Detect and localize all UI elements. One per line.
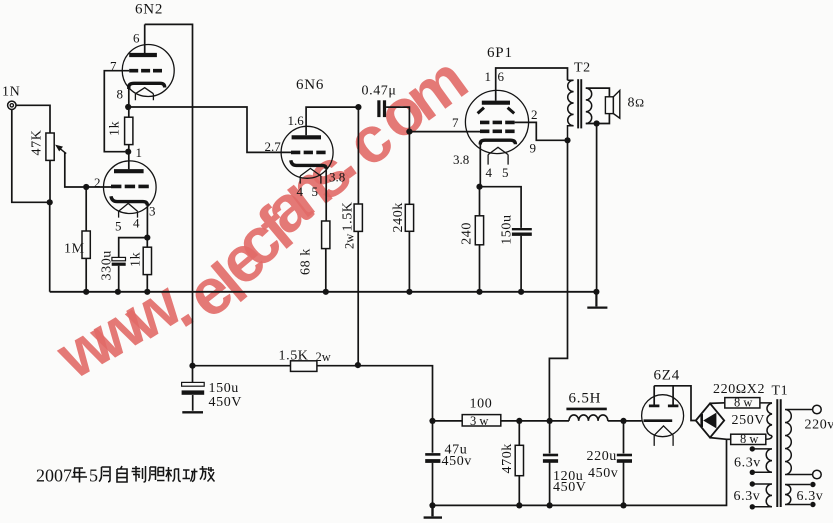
6N2 upper cathode: [129, 83, 165, 89]
ground symbol bottom left: [424, 505, 442, 517]
svg-text:6.3v: 6.3v: [734, 489, 761, 504]
6N2 upper grid (dashed): [129, 69, 162, 73]
svg-text:3.8: 3.8: [329, 169, 345, 184]
tube 6N2 lower triode envelope: [104, 161, 157, 214]
node 1k ground: [144, 289, 150, 295]
svg-text:1.6: 1.6: [288, 113, 305, 128]
B+ rail top: [433, 420, 642, 422]
node 470k top: [516, 418, 522, 424]
hanzi 功: [183, 469, 198, 482]
node 470k bottom: [516, 502, 522, 508]
resistor 100 3w body: [462, 415, 501, 426]
svg-text:6.3v: 6.3v: [797, 489, 824, 504]
transformer T2 core: [577, 79, 582, 128]
svg-text:6N2: 6N2: [135, 2, 163, 18]
svg-text:1: 1: [136, 145, 143, 160]
resistor 1.5K 2w plate load leads: [357, 107, 359, 365]
node 220u bottom: [620, 502, 626, 508]
capacitor 120u 450V plates: [543, 455, 558, 461]
node 240 ground: [476, 289, 482, 295]
resistor 1.5K 2w plate load body: [354, 204, 362, 231]
svg-text:8Ω: 8Ω: [628, 96, 645, 111]
6N2 lower grid (dashed): [111, 185, 149, 189]
input jack 1N: [8, 101, 16, 109]
resistor 470k leads: [518, 421, 520, 506]
tube 6P1 envelope: [465, 90, 528, 153]
tube 6Z4 envelope: [642, 395, 684, 437]
svg-text:68 k: 68 k: [299, 248, 314, 275]
capacitor 47u 450v plates: [425, 454, 440, 461]
6N6 plate: [292, 135, 321, 139]
6N2 lower heater: [119, 203, 138, 217]
svg-text:150u: 150u: [209, 381, 239, 396]
6N2 upper plate: [129, 53, 157, 57]
6Z4 plates: [649, 404, 679, 407]
inductor 6.5H choke winding: [569, 415, 608, 421]
wire grid node to tube grid: [86, 186, 112, 188]
hanzi 自: [117, 466, 127, 482]
6P1 beam plates: [478, 108, 515, 114]
6Z4 heater: [654, 426, 673, 446]
6N6 cathode: [291, 160, 326, 169]
wire wiper to grid node: [65, 153, 84, 188]
6N2 upper plate lead: [144, 24, 146, 53]
ground symbol at bus end: [587, 292, 607, 308]
6P1 heater: [488, 147, 508, 164]
svg-text:1.5K: 1.5K: [341, 201, 356, 231]
svg-text:4: 4: [486, 165, 493, 180]
capacitor 330u leads: [119, 238, 148, 292]
hanzi 机: [166, 467, 181, 482]
tube 6N6 envelope: [281, 126, 333, 178]
node choke out / 220u top: [620, 418, 626, 424]
node T2 primary bottom / screen / B+: [564, 137, 570, 143]
svg-text:47K: 47K: [30, 130, 45, 156]
svg-text:5: 5: [502, 165, 509, 180]
svg-text:220u: 220u: [587, 449, 617, 464]
6N2 lower plate: [114, 169, 144, 173]
watermark www.elecfans.com: [44, 41, 481, 393]
node 240k ground: [406, 289, 412, 295]
hanzi 放: [200, 466, 215, 482]
node 6.3v upper terminals: [750, 446, 755, 475]
node B+ takeoff / 120u top: [547, 418, 553, 424]
svg-text:6: 6: [498, 69, 505, 84]
6N6 grid (dashed): [291, 151, 326, 155]
svg-text:T1: T1: [772, 384, 789, 399]
hanzi 月: [99, 467, 110, 482]
resistor 240 body: [475, 216, 483, 245]
capacitor 330u plates: [112, 257, 126, 265]
svg-text:1k: 1k: [108, 121, 123, 136]
node 68k ground: [323, 289, 329, 295]
node right 6.3v terminals: [810, 482, 815, 507]
svg-text:330u: 330u: [100, 250, 115, 280]
svg-text:150u: 150u: [500, 214, 515, 244]
node 1M to ground bus: [83, 289, 89, 295]
svg-text:1N: 1N: [2, 85, 20, 100]
svg-text:4: 4: [297, 184, 304, 199]
svg-text:2007: 2007: [36, 466, 72, 486]
resistor 1k cathode leads: [146, 238, 148, 292]
svg-text:2w: 2w: [343, 234, 357, 249]
svg-text:8: 8: [117, 86, 124, 101]
resistor 240 leads: [479, 187, 481, 292]
svg-text:6P1: 6P1: [487, 45, 513, 61]
resistor 8w upper body: [725, 398, 760, 408]
transformer T1 core: [776, 399, 781, 507]
svg-text:8 w: 8 w: [740, 432, 758, 446]
wire jack to potentiometer top: [16, 105, 50, 133]
resistor 470k body: [515, 445, 523, 475]
wire B+ from pin6 plate top rail down to 366 line: [145, 24, 193, 365]
node grid of first triode: [83, 184, 89, 190]
node secondary ground junction: [594, 120, 600, 126]
wire speaker return to ground bus: [596, 124, 598, 292]
svg-text:7: 7: [110, 59, 117, 74]
svg-text:4: 4: [133, 216, 140, 231]
capacitor 150u cathode bypass leads: [480, 187, 522, 292]
svg-text:450V: 450V: [209, 395, 243, 410]
node pin8 cathode junction: [125, 104, 131, 110]
potentiometer wiper arrow: [55, 145, 66, 154]
wire 6N6 cathode to 68k: [325, 168, 327, 222]
svg-text:450v: 450v: [588, 466, 618, 481]
tube 6N2 upper triode envelope: [122, 45, 174, 97]
transformer T2 secondary winding: [586, 88, 592, 123]
node 47u bottom / ground: [429, 502, 435, 508]
6P1 plate: [482, 101, 510, 105]
wire 0.47u to 6P1 grid: [386, 107, 480, 132]
capacitor 120u 450V leads: [549, 421, 551, 506]
wire pin8 to 6N6 grid: [131, 107, 292, 152]
svg-text:2: 2: [94, 175, 101, 190]
wire secondary top to speaker: [586, 88, 610, 97]
wire B+ riser to output stage: [549, 140, 567, 421]
svg-text:240: 240: [460, 222, 475, 245]
node 150u ground: [518, 289, 524, 295]
capacitor 220u 450v plates: [617, 455, 632, 461]
node B+ first stage junction: [189, 363, 195, 369]
wire secondary bottom to speaker and ground: [586, 114, 610, 124]
node 6.3v lower terminals: [750, 481, 755, 509]
resistor 1M body: [82, 231, 90, 258]
6P1 cathode: [480, 140, 515, 144]
wire 6P1 plate to T2 primary: [496, 68, 568, 101]
node 120u bottom: [547, 502, 553, 508]
hanzi 年: [72, 468, 88, 483]
wire 6P1 screen pin2/9 to B+ node: [515, 122, 565, 140]
transformer T1 HV winding: [760, 403, 772, 439]
wire diamond bottom to 8w resistor and 0V rail: [710, 438, 731, 440]
node pin1 (1k bottom, plate, upper grid): [125, 149, 131, 155]
wire pot bottom to ground bus: [49, 160, 51, 291]
transformer T1 6.3v right winding: [785, 485, 810, 505]
ground bus: [50, 291, 597, 293]
resistor 1k body: [125, 117, 133, 144]
svg-text:6Z4: 6Z4: [654, 368, 681, 384]
svg-text:7: 7: [452, 115, 459, 130]
caption 2007年5月自制胆机功放: [36, 466, 215, 486]
resistor 240k leads: [408, 132, 410, 292]
svg-text:470k: 470k: [500, 443, 515, 473]
svg-text:2: 2: [531, 107, 538, 122]
resistor 68k body: [322, 221, 330, 249]
transformer T1 6.3v winding upper: [752, 449, 772, 472]
bottom rail: [433, 439, 727, 506]
potentiometer 47K body: [46, 133, 54, 160]
node 6P1 cathode junction: [476, 184, 482, 190]
6P1 control grid g1 (dashed): [480, 130, 515, 134]
svg-text:450v: 450v: [442, 454, 472, 469]
svg-text:3.8: 3.8: [453, 152, 469, 167]
node 330u ground: [115, 289, 121, 295]
resistor 1M leads: [85, 187, 87, 292]
wire jack ground leg: [12, 109, 50, 202]
svg-text:0.47μ: 0.47μ: [362, 84, 397, 99]
svg-text:1k: 1k: [129, 252, 144, 267]
resistor 1k (between pin8 and pin1) leads: [128, 107, 130, 152]
6P1 screen grid g2 (dashed): [480, 121, 515, 125]
speaker 8 ohm: [605, 90, 619, 118]
capacitor 150u 450V plates: [182, 382, 205, 394]
node 240k grid junction: [406, 129, 412, 135]
capacitor 150u 450V decoupling leads: [192, 366, 194, 411]
wire cathode pin3 down: [146, 204, 148, 238]
6Z4 cathode bar: [644, 419, 673, 422]
wire 68k to ground: [325, 249, 327, 292]
svg-text:6N6: 6N6: [296, 77, 324, 93]
wire pin8 cathode lead: [128, 88, 130, 107]
svg-text:1.5K: 1.5K: [279, 349, 309, 364]
6Z4 plate leads and top wire: [654, 386, 696, 421]
ground symbol below 150u: [182, 411, 203, 413]
resistor 8w lower body: [731, 434, 766, 444]
wire B+ 366 line: [193, 366, 433, 421]
capacitor 150u cathode bypass plates: [512, 229, 532, 234]
svg-text:8 w: 8 w: [734, 396, 752, 410]
terminal 220v bottom: [813, 470, 822, 479]
svg-text:240k: 240k: [391, 202, 406, 232]
wire upper tube grid pin7 to node 1: [104, 71, 129, 152]
svg-text:5: 5: [115, 219, 122, 234]
svg-text:250V: 250V: [732, 413, 766, 428]
svg-text:6.5H: 6.5H: [569, 391, 602, 407]
svg-text:450V: 450V: [553, 480, 587, 495]
svg-text:2w: 2w: [316, 350, 331, 364]
svg-text:5: 5: [89, 466, 98, 486]
svg-text:9: 9: [530, 141, 537, 156]
svg-text:3: 3: [149, 204, 156, 219]
resistor 1k cathode body: [143, 247, 151, 274]
svg-text:T2: T2: [574, 61, 591, 76]
diode rectifier diamond: [696, 403, 724, 437]
svg-text:3 w: 3 w: [470, 414, 488, 428]
wire diamond top to 8w resistor: [710, 402, 725, 405]
6N2 lower plate lead to node 1: [128, 152, 130, 170]
svg-text:2.7: 2.7: [265, 139, 282, 154]
6N2 lower cathode: [111, 196, 147, 205]
svg-text:5: 5: [312, 184, 319, 199]
hanzi 胆: [149, 467, 165, 481]
transformer T1 220v primary winding: [785, 410, 813, 475]
svg-text:6: 6: [133, 31, 140, 46]
svg-text:100: 100: [470, 397, 493, 412]
inductor 6.5H core bar: [566, 408, 606, 411]
resistor 1.5K 2w dropper body: [291, 361, 317, 372]
6N6 heater: [300, 168, 321, 183]
6N2 upper heater: [135, 88, 153, 101]
node jack-ground junction: [47, 199, 53, 205]
6N6 plate lead up and to coupling node: [306, 107, 358, 135]
transformer T2 primary winding: [568, 80, 574, 140]
node 1.5K vertical joins 366 line: [355, 362, 361, 368]
svg-text:6.3v: 6.3v: [734, 455, 761, 470]
transformer T1 6.3v winding lower: [752, 484, 772, 507]
capacitor 220u 450v leads: [623, 421, 625, 506]
resistor 240k body: [405, 204, 413, 231]
node cathode RC junction: [144, 235, 150, 241]
hanzi 制: [132, 466, 146, 482]
node rail 47u corner: [429, 418, 435, 424]
svg-text:220v: 220v: [805, 418, 833, 433]
svg-text:1M: 1M: [64, 242, 85, 257]
capacitor 47u 450v leads: [432, 421, 434, 506]
node coupling (plate / 0.47u / 1.5K): [355, 104, 361, 110]
node ground bus end: [593, 289, 599, 295]
diode bar and arrow: [702, 413, 717, 429]
wire 6P1 cathode down: [479, 144, 481, 187]
terminal 220v top: [813, 405, 822, 414]
capacitor 0.47u plates: [377, 100, 386, 117]
svg-text:1: 1: [485, 69, 492, 84]
